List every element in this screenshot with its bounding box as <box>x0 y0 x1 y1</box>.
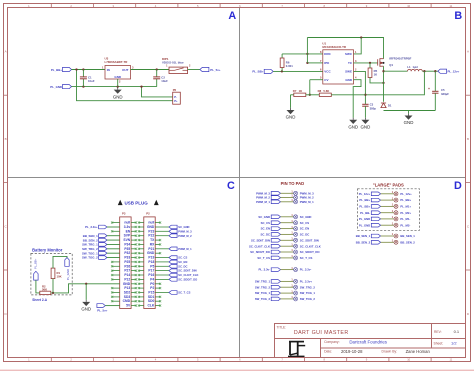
IC U1 MC34063ACD-TR <box>323 50 354 84</box>
wire R2 to GND net <box>51 284 120 293</box>
svg-text:Zane Homan: Zane Homan <box>406 349 431 354</box>
ground bottom mid <box>408 111 410 114</box>
svg-text:1µH: 1µH <box>413 65 418 69</box>
pad PWM_M_1 <box>294 200 298 204</box>
svg-text:PWM_M_1: PWM_M_1 <box>300 200 314 204</box>
wire <box>281 197 294 199</box>
svg-text:PIN TO PAD: PIN TO PAD <box>281 181 305 186</box>
svg-text:SW_TOG_1: SW_TOG_1 <box>255 291 271 295</box>
junction <box>306 53 308 55</box>
svg-text:Dartcraft Foundries: Dartcraft Foundries <box>349 339 387 344</box>
svg-text:MC34063ACD-TR: MC34063ACD-TR <box>322 45 347 49</box>
svg-text:380p: 380p <box>370 106 377 110</box>
svg-text:10: 10 <box>407 4 410 8</box>
wire <box>107 235 120 237</box>
pad SC_T_CS <box>294 256 298 260</box>
svg-text:0.001: 0.001 <box>286 64 293 68</box>
P3 pin stubs left <box>111 222 120 303</box>
junction <box>82 85 84 87</box>
svg-text:SC_SDI/T_DIN: SC_SDI/T_DIN <box>178 269 196 273</box>
svg-text:SWC: SWC <box>345 52 353 56</box>
wire <box>381 235 394 237</box>
svg-text:Date:: Date: <box>324 350 332 354</box>
svg-text:SC_GND: SC_GND <box>178 225 189 229</box>
svg-text:GND: GND <box>114 75 122 79</box>
svg-text:PWM_M_3: PWM_M_3 <box>178 229 192 233</box>
svg-text:GND: GND <box>361 125 371 130</box>
svg-text:10: 10 <box>407 358 410 362</box>
svg-text:PL_12v+: PL_12v+ <box>359 192 371 196</box>
svg-text:PL_M2+: PL_M2+ <box>400 211 411 215</box>
svg-text:GND: GND <box>348 125 358 130</box>
pad PL_M1- <box>394 217 398 221</box>
junction <box>85 283 87 285</box>
transistor Q1 IRFR3410TRPBF <box>378 58 384 67</box>
svg-text:VCC: VCC <box>324 70 331 74</box>
USB PLUG label <box>118 200 123 205</box>
wire 5v <box>105 305 119 307</box>
capacitor C2 <box>156 70 158 77</box>
wire <box>381 193 394 195</box>
wire source down <box>383 66 385 102</box>
svg-text:A: A <box>228 10 236 22</box>
svg-text:PWM_M_2: PWM_M_2 <box>178 234 192 238</box>
pad PL_M2- <box>394 223 398 227</box>
wire <box>281 222 294 224</box>
svg-text:USB PLUG: USB PLUG <box>125 201 149 206</box>
wire BB+ to P6 P+ <box>77 70 173 101</box>
svg-text:SC_GND: SC_GND <box>300 215 312 219</box>
P3 pin stubs right <box>131 222 137 307</box>
junction <box>423 70 425 72</box>
svg-text:SC_CS: SC_CS <box>261 221 270 225</box>
svg-text:BB_SEN_2: BB_SEN_2 <box>400 240 415 244</box>
svg-text:IRFR3410TRPBF: IRFR3410TRPBF <box>389 57 411 61</box>
svg-text:L7806SABDT-TR: L7806SABDT-TR <box>105 60 129 64</box>
svg-text:SC_T_CS: SC_T_CS <box>300 256 313 260</box>
inductor L1 1uH <box>408 69 423 71</box>
wire <box>281 201 294 203</box>
pad PL_12v+ <box>394 192 398 196</box>
wire top rail <box>307 38 383 59</box>
sheet divider vertical <box>239 8 241 357</box>
svg-text:R8: R8 <box>318 89 322 93</box>
junction <box>306 62 308 64</box>
wire <box>281 286 294 288</box>
svg-text:SC_DC: SC_DC <box>300 233 309 237</box>
svg-text:SC_CLK/T_CLK: SC_CLK/T_CLK <box>249 244 270 248</box>
pad SC_SDI/T_DIN <box>294 238 298 242</box>
svg-text:GND: GND <box>345 78 353 82</box>
wire U3 GND pin <box>117 79 119 87</box>
svg-text:SC_DC: SC_DC <box>261 233 270 237</box>
bottom window edge line <box>0 370 474 371</box>
svg-text:P6: P6 <box>173 88 177 92</box>
svg-text:REV:: REV: <box>434 330 442 334</box>
wire <box>381 224 394 226</box>
svg-text:56K: 56K <box>42 288 47 292</box>
wire R6 top to pin 8 <box>282 53 323 55</box>
svg-text:1/2: 1/2 <box>451 340 457 345</box>
wire R1 top to PL_GND <box>53 256 67 268</box>
pad PWM_M_2 <box>294 196 298 200</box>
svg-text:SC_SDI/T_DIN: SC_SDI/T_DIN <box>251 238 270 242</box>
diode D1 <box>381 103 386 108</box>
svg-text:BB_SEN_1: BB_SEN_1 <box>400 234 415 238</box>
wire R1 bottom <box>52 279 54 293</box>
P2 right side ports <box>169 225 199 295</box>
wire PL_BB+ down <box>36 280 40 293</box>
pad PL_3.3v+ <box>294 279 298 283</box>
svg-text:PL_3.3v+: PL_3.3v+ <box>300 280 313 284</box>
junction <box>75 68 77 70</box>
svg-text:B: B <box>5 137 7 141</box>
svg-text:SW_TOG_2: SW_TOG_2 <box>300 297 316 301</box>
ground under U3 <box>113 88 123 100</box>
port PL_12v+ <box>438 69 447 73</box>
svg-text:PL_5v+: PL_5v+ <box>97 308 108 312</box>
svg-text:SC_SDO/T_DO: SC_SDO/T_DO <box>250 250 271 254</box>
wire output to feedback <box>365 71 424 95</box>
wire <box>281 228 294 230</box>
capacitor C1 <box>82 70 84 77</box>
wire GND pin path <box>353 80 361 118</box>
svg-text:Battery Monitor: Battery Monitor <box>32 248 63 253</box>
svg-text:SC_EN: SC_EN <box>300 227 309 231</box>
wire CV feedback tap <box>310 79 323 81</box>
svg-text:SC_CS: SC_CS <box>178 256 187 260</box>
svg-text:A: A <box>5 50 7 54</box>
large pads dashed box <box>358 189 420 231</box>
svg-text:330µF: 330µF <box>441 92 449 96</box>
junction <box>382 70 384 72</box>
wire gnd stub <box>85 284 87 300</box>
svg-text:B: B <box>454 10 462 22</box>
svg-text:PL_BB+: PL_BB+ <box>51 68 62 72</box>
wire GND rail <box>72 86 157 88</box>
svg-text:GND: GND <box>113 94 123 99</box>
pad SC_CS <box>294 221 298 225</box>
pad PL_M2+ <box>394 211 398 215</box>
svg-text:+: + <box>428 87 430 91</box>
svg-text:D1: D1 <box>388 103 392 107</box>
resistor R6 0.001 <box>281 67 283 71</box>
svg-text:PL_BB+: PL_BB+ <box>400 198 411 202</box>
ground R7 <box>286 108 296 120</box>
svg-text:PL_3.3v+: PL_3.3v+ <box>85 225 98 229</box>
wire DIP1 to port <box>188 69 200 71</box>
resistor R2 56K <box>40 291 51 294</box>
junction <box>281 70 283 72</box>
svg-text:PL_BB+: PL_BB+ <box>34 258 38 269</box>
wire <box>281 251 294 253</box>
svg-text:SWE: SWE <box>345 70 352 74</box>
svg-text:PL_BB+: PL_BB+ <box>359 205 370 209</box>
svg-text:SW_TRG_2: SW_TRG_2 <box>300 285 316 289</box>
svg-text:P+: P+ <box>174 99 178 103</box>
svg-text:IPK: IPK <box>324 61 330 65</box>
svg-text:SC_SDI/T_DIN: SC_SDI/T_DIN <box>300 238 319 242</box>
svg-text:B: B <box>467 137 469 141</box>
svg-text:SW_TOG_2: SW_TOG_2 <box>82 256 98 260</box>
svg-text:PL_M1-: PL_M1- <box>400 217 410 221</box>
pad SC_GND <box>294 215 298 219</box>
svg-text:SC_EN: SC_EN <box>178 260 187 264</box>
junction <box>434 70 436 72</box>
svg-text:PL_BB-: PL_BB- <box>360 211 370 215</box>
svg-text:11: 11 <box>450 358 453 362</box>
wire top loop vertical <box>306 38 308 63</box>
capacitor C5 330uF <box>434 71 436 91</box>
svg-text:PL_3.3v-: PL_3.3v- <box>300 268 312 272</box>
wire <box>281 269 294 271</box>
svg-text:"LARGE" PADS: "LARGE" PADS <box>373 182 404 187</box>
wire VCC rail <box>273 70 323 72</box>
DF logo <box>288 341 305 356</box>
svg-text:C: C <box>227 180 235 192</box>
svg-text:PL_5v+: PL_5v+ <box>210 68 221 72</box>
port PL_5v+ <box>200 67 209 71</box>
connector P2 <box>144 217 155 309</box>
junction <box>364 94 366 96</box>
wire switch node to L1 <box>384 70 408 72</box>
ground pin4 <box>348 118 358 130</box>
P2 pin stubs right <box>155 222 169 307</box>
wire GND to P6 P- <box>142 87 173 97</box>
wire U3 OUT <box>131 69 170 71</box>
svg-text:SC_SDO/T_DO: SC_SDO/T_DO <box>300 250 321 254</box>
svg-text:SC_CLK/T_CLK: SC_CLK/T_CLK <box>178 273 198 277</box>
svg-text:SW_TOG_2: SW_TOG_2 <box>255 297 271 301</box>
wire BB+ rail <box>72 69 106 71</box>
svg-text:OUT: OUT <box>122 68 129 72</box>
svg-text:1K: 1K <box>374 72 378 76</box>
resistor R1 10K <box>51 268 55 279</box>
pad SC_DC <box>294 232 298 236</box>
svg-text:R7: R7 <box>293 89 297 93</box>
ground under C3 <box>361 118 371 130</box>
svg-text:Q1: Q1 <box>389 63 393 67</box>
svg-text:10uF: 10uF <box>161 79 168 83</box>
pad SW_TOG_1 <box>294 291 298 295</box>
pad PL_3.3v- <box>294 268 298 272</box>
pad PL_BB+ <box>394 198 398 202</box>
wire 3.3v <box>107 226 120 228</box>
ground battery <box>81 300 91 312</box>
wire <box>281 292 294 294</box>
wire SWE down <box>354 71 366 104</box>
wire <box>281 239 294 241</box>
wire <box>107 243 120 245</box>
wire SWC pin1 <box>354 38 362 54</box>
pad PWM_M_3 <box>294 191 298 195</box>
sheet divider horizontal <box>8 177 465 179</box>
junction <box>117 85 119 87</box>
svg-text:SC_T_CS: SC_T_CS <box>257 256 270 260</box>
wire <box>281 245 294 247</box>
svg-text:PWM_M_1: PWM_M_1 <box>178 247 192 251</box>
svg-text:PL_GND: PL_GND <box>359 223 370 227</box>
wire <box>381 212 394 214</box>
wire <box>107 252 120 254</box>
svg-text:SC_CLK/T_CLK: SC_CLK/T_CLK <box>300 244 321 248</box>
border column ticks <box>51 4 431 362</box>
svg-text:PL_GND: PL_GND <box>359 217 370 221</box>
svg-text:PL_GND: PL_GND <box>66 269 70 280</box>
svg-text:DART GUI MASTER: DART GUI MASTER <box>294 330 349 336</box>
pad PL_M1+ <box>394 204 398 208</box>
junction <box>309 94 311 96</box>
svg-text:Sheet 2-A: Sheet 2-A <box>32 298 47 302</box>
wire <box>281 216 294 218</box>
battery monitor box <box>31 253 72 295</box>
junction <box>140 85 142 87</box>
wire <box>381 241 394 243</box>
connector P6 <box>173 92 181 104</box>
pad SC_CLK/T_CLK <box>294 244 298 248</box>
junction <box>156 68 158 70</box>
svg-text:Company:: Company: <box>324 340 340 344</box>
svg-text:10K: 10K <box>57 274 62 278</box>
junction <box>82 68 84 70</box>
wire <box>381 199 394 201</box>
svg-text:10uF: 10uF <box>88 79 95 83</box>
svg-text:SC_EN: SC_EN <box>261 227 270 231</box>
svg-text:1K: 1K <box>299 89 303 93</box>
svg-text:Drawn By:: Drawn By: <box>382 350 398 354</box>
svg-text:BB_SEN_1: BB_SEN_1 <box>356 234 371 238</box>
wire <box>107 257 120 259</box>
svg-text:GND: GND <box>404 120 414 125</box>
border row letters <box>5 50 470 316</box>
svg-text:D: D <box>454 180 462 192</box>
svg-text:TITLE:: TITLE: <box>277 325 287 329</box>
svg-text:5.6K: 5.6K <box>323 89 329 93</box>
svg-text:0.1: 0.1 <box>454 329 460 334</box>
wire L1 to port <box>422 70 438 72</box>
junction <box>360 36 362 38</box>
wire <box>107 248 120 250</box>
svg-text:SC_CS: SC_CS <box>300 221 309 225</box>
svg-text:PWM_M_1: PWM_M_1 <box>256 200 270 204</box>
wire <box>381 205 394 207</box>
resistor R8 5.6K <box>306 94 320 96</box>
svg-text:SW_TRG_2: SW_TRG_2 <box>255 285 271 289</box>
P2 pin stubs left <box>138 222 144 307</box>
border row ticks <box>4 95 471 270</box>
svg-text:2019-10-28: 2019-10-28 <box>341 349 363 354</box>
wire <box>281 192 294 194</box>
capacitor C3 380p <box>362 104 368 106</box>
pad SC_SDO/T_DO <box>294 250 298 254</box>
wire <box>381 218 394 220</box>
svg-text:SC_DC: SC_DC <box>178 264 187 268</box>
junction <box>382 82 384 84</box>
title block <box>275 324 466 358</box>
svg-text:PL_3.3v-: PL_3.3v- <box>258 268 270 272</box>
svg-text:P3: P3 <box>122 212 126 216</box>
port PL_5v+ bottom <box>97 304 105 308</box>
svg-text:CV: CV <box>324 78 328 82</box>
switch DIP1 VDG/S-01L blue <box>169 67 188 73</box>
pad BB_SEN_2 <box>394 240 398 244</box>
svg-text:SC_GND: SC_GND <box>258 215 270 219</box>
regulator U3 L7806SABDT-TR <box>105 66 131 80</box>
pad SW_TRG_2 <box>294 285 298 289</box>
svg-text:GND: GND <box>81 307 91 312</box>
wire <box>107 239 120 241</box>
svg-text:11: 11 <box>450 4 453 8</box>
pad SC_EN <box>294 227 298 231</box>
resistor R7 1K <box>291 94 294 96</box>
svg-text:SW_TRG_1: SW_TRG_1 <box>255 280 271 284</box>
svg-text:BB_SEN_2: BB_SEN_2 <box>356 240 371 244</box>
junction <box>369 62 371 64</box>
connector P3 <box>120 217 131 309</box>
wire <box>281 257 294 259</box>
svg-text:PL_BB+: PL_BB+ <box>252 70 263 74</box>
svg-text:SC_SDO/T_DO: SC_SDO/T_DO <box>178 277 197 281</box>
svg-text:IN: IN <box>107 68 110 72</box>
svg-text:DRC: DRC <box>324 52 331 56</box>
svg-text:SW_TOG_1: SW_TOG_1 <box>300 291 316 295</box>
resistor R5 1K <box>369 63 371 68</box>
wire <box>281 298 294 300</box>
svg-text:A: A <box>467 50 469 54</box>
wire bottom rail <box>384 110 436 112</box>
wire pin7 <box>307 62 322 64</box>
svg-text:PL_M2-: PL_M2- <box>400 223 410 227</box>
svg-text:PL_12v+: PL_12v+ <box>448 69 460 73</box>
svg-text:PL_BB+: PL_BB+ <box>359 198 370 202</box>
svg-text:P2: P2 <box>146 212 150 216</box>
wire <box>281 233 294 235</box>
junction <box>52 292 54 294</box>
svg-text:GND: GND <box>286 115 296 120</box>
pad SW_TOG_2 <box>294 297 298 301</box>
svg-text:PL_GND: PL_GND <box>50 85 62 89</box>
svg-text:PL_M1+: PL_M1+ <box>400 205 411 209</box>
svg-text:L1: L1 <box>407 65 411 69</box>
wire TC to gate <box>354 62 378 64</box>
pad BB_SEN_1 <box>394 234 398 238</box>
wire R7 to ground <box>290 95 292 108</box>
wire <box>281 280 294 282</box>
svg-text:PL_12v+: PL_12v+ <box>400 192 412 196</box>
svg-text:Sheet:: Sheet: <box>434 341 444 345</box>
svg-text:SC_T_CS: SC_T_CS <box>178 291 190 295</box>
svg-text:CLK: CLK <box>148 304 155 308</box>
wire R8 to feedback node <box>331 94 365 96</box>
